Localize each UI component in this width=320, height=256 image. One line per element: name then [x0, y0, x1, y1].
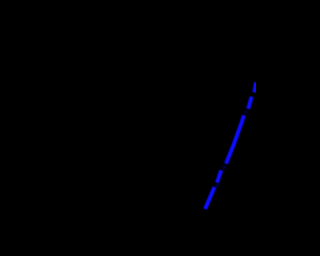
- faint dot between dash3-4: [223, 166, 226, 169]
- dash 2: [248, 97, 251, 109]
- dash 5: [205, 187, 214, 209]
- faint dot between dash2-3: [245, 110, 248, 113]
- dash 3 (long): [226, 115, 244, 163]
- dash 4: [217, 170, 221, 182]
- faint dot between dash4-5: [216, 184, 219, 187]
- dash 1: [254, 82, 256, 92]
